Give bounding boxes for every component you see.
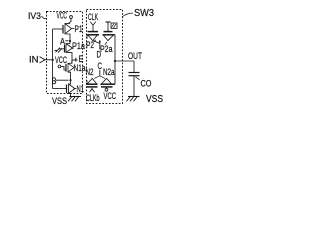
transistor N1 — [67, 80, 76, 96]
wire P1a gate — [59, 48, 65, 50]
label P1 — [72, 24, 83, 35]
node B — [52, 76, 72, 87]
wire IN — [45, 59, 53, 61]
svg-text:IN: IN — [29, 55, 39, 66]
label SW3 — [122, 8, 154, 19]
svg-text:P2a: P2a — [100, 44, 113, 55]
svg-text:P2: P2 — [86, 40, 94, 51]
svg-text:VSS: VSS — [146, 94, 163, 105]
wire P2 source stub — [86, 35, 88, 39]
svg-text:N1: N1 — [77, 84, 85, 95]
label CO — [136, 77, 152, 90]
node junction IN — [52, 59, 54, 61]
transistor P2a — [103, 32, 115, 41]
svg-text:N2a: N2a — [103, 67, 115, 78]
IN terminal — [29, 55, 45, 66]
svg-text:SW3: SW3 — [134, 8, 154, 19]
svg-text:P1: P1 — [75, 24, 83, 35]
svg-text:B: B — [52, 76, 57, 87]
svg-text:IV3: IV3 — [28, 11, 41, 22]
wire E column — [71, 58, 73, 64]
wire N1 gate — [53, 88, 67, 90]
transistor P1a — [65, 44, 73, 58]
transistor N2 — [87, 78, 98, 87]
svg-text:D: D — [97, 50, 102, 61]
capacitor CO — [129, 73, 140, 97]
svg-text:CLK: CLK — [88, 12, 98, 23]
P2a gate tie — [106, 22, 118, 32]
node E — [72, 54, 83, 65]
transistor P2 — [87, 32, 99, 41]
label P2a — [100, 42, 113, 55]
transistor N2a — [101, 78, 116, 87]
SW3 dashed box — [87, 10, 123, 104]
VCC terminal mid (IV3) — [55, 55, 67, 68]
ground IV3 — [68, 97, 81, 102]
VCC terminal top (IV3) — [57, 11, 73, 22]
IV3 dashed box — [47, 12, 83, 94]
hatch P1a gate tie — [55, 48, 63, 53]
label IV3 — [28, 11, 46, 22]
transistor N1a — [66, 61, 74, 81]
wire VCC to N1a gate — [61, 66, 66, 70]
svg-text:N1a: N1a — [74, 63, 86, 74]
svg-text:P1a: P1a — [72, 41, 85, 52]
svg-text:CLKb: CLKb — [86, 93, 100, 104]
ground right — [127, 97, 140, 102]
wire N2 source stub — [86, 80, 88, 84]
VCC terminal N2a gate — [104, 87, 117, 102]
svg-text:CO: CO — [141, 79, 152, 90]
CLK terminal — [88, 12, 98, 32]
svg-text:N2: N2 — [86, 67, 94, 78]
node junction rail right — [114, 60, 116, 62]
wire P1 gate — [53, 28, 64, 30]
svg-text:VCC: VCC — [57, 11, 68, 22]
svg-text:VCC: VCC — [104, 91, 117, 102]
label N1 — [74, 84, 85, 95]
svg-text:VCC: VCC — [55, 55, 67, 66]
wire OUT down — [133, 61, 135, 72]
wire rail OUT — [115, 60, 135, 62]
node C wire — [94, 70, 105, 79]
wire input column — [52, 29, 54, 89]
wire right column SW3 — [114, 35, 116, 84]
node D wire — [93, 40, 101, 49]
node A — [60, 37, 71, 48]
transistor P1 — [63, 24, 72, 42]
svg-text:OUT: OUT — [128, 51, 142, 62]
wire VCC to P1 — [69, 18, 72, 23]
label P2 — [86, 40, 96, 51]
CLKb terminal — [86, 89, 100, 104]
svg-text:VSS: VSS — [52, 96, 67, 107]
wire A to P1a — [69, 41, 71, 44]
